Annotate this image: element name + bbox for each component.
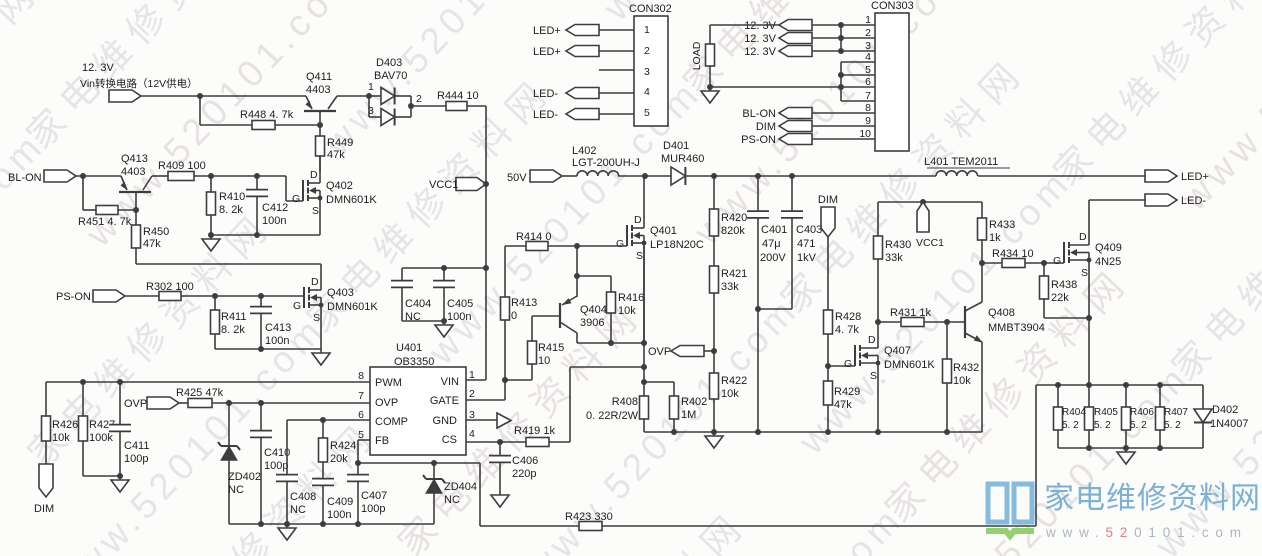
resistor R438: [1040, 263, 1093, 321]
svg-text:C406: C406: [512, 455, 538, 467]
capacitor C413: [250, 296, 291, 349]
connector LED+: [1145, 170, 1209, 183]
resistor R425: [176, 387, 224, 408]
svg-text:S: S: [1081, 267, 1088, 279]
svg-text:Q402: Q402: [326, 180, 353, 192]
wire Q402 source bus: [208, 232, 320, 238]
node LED+ pin1: [533, 25, 634, 38]
inductor L401: [924, 156, 1010, 176]
node 12.3V pin2: [744, 33, 875, 46]
svg-text:12. 3V: 12. 3V: [744, 33, 776, 45]
svg-text:R434 10: R434 10: [992, 248, 1034, 260]
ground under C405: [435, 321, 453, 337]
resistor R426: [42, 416, 79, 444]
svg-text:R408: R408: [612, 396, 638, 408]
svg-text:D: D: [634, 214, 642, 226]
svg-text:22k: 22k: [1051, 292, 1069, 304]
svg-text:S: S: [870, 370, 877, 382]
wire PS-ON to R302: [125, 295, 159, 297]
svg-text:8: 8: [358, 370, 364, 382]
zener ZD404: [423, 463, 477, 524]
svg-text:47k: 47k: [143, 238, 161, 250]
svg-text:R438: R438: [1051, 279, 1077, 291]
svg-text:R409 100: R409 100: [158, 160, 206, 172]
svg-text:100p: 100p: [124, 453, 148, 465]
svg-text:NC: NC: [228, 484, 244, 496]
label R406: [1130, 407, 1154, 431]
svg-text:S: S: [636, 250, 643, 262]
ground power bus: [705, 432, 723, 448]
node BL-ON: [8, 170, 76, 184]
svg-text:MMBT3904: MMBT3904: [988, 322, 1045, 334]
svg-text:Q403: Q403: [327, 287, 354, 299]
svg-text:10k: 10k: [721, 388, 739, 400]
svg-text:C408: C408: [290, 491, 316, 503]
ground under C411: [111, 476, 129, 492]
svg-text:R402: R402: [681, 396, 707, 408]
label R404: [1062, 407, 1086, 431]
svg-text:R406: R406: [1130, 407, 1154, 418]
resistor R450: [132, 210, 170, 250]
wire L402 to D401: [618, 173, 671, 179]
svg-text:MUR460: MUR460: [661, 153, 704, 165]
logo book icon: [986, 484, 1034, 536]
svg-text:家电维修资料网: 家电维修资料网: [1044, 482, 1261, 515]
svg-text:Q404: Q404: [580, 304, 607, 316]
svg-text:C405: C405: [447, 298, 473, 310]
svg-text:100n: 100n: [327, 509, 351, 521]
svg-text:Q407: Q407: [884, 345, 911, 357]
svg-text:R449: R449: [327, 137, 353, 149]
svg-text:R433: R433: [989, 219, 1015, 231]
svg-text:DMN601K: DMN601K: [884, 359, 935, 371]
inductor L402: [572, 145, 640, 176]
mosfet Q402: [292, 156, 377, 235]
resistor R302: [146, 281, 194, 301]
wire VCC decoupling: [402, 265, 489, 271]
svg-text:47k: 47k: [834, 399, 852, 411]
svg-text:L402: L402: [572, 145, 596, 157]
svg-text:R431 1k: R431 1k: [890, 307, 931, 319]
wire Q404 collector bus: [577, 340, 647, 346]
resistor R414: [505, 231, 551, 251]
svg-text:U401: U401: [396, 342, 422, 354]
label R407: [1164, 407, 1188, 431]
resistor R415: [502, 316, 564, 383]
svg-text:LGT-200UH-J: LGT-200UH-J: [572, 157, 640, 169]
wire 12.3V rail: [141, 93, 306, 99]
svg-text:5. 2: 5. 2: [1130, 420, 1147, 431]
resistor R408: [586, 396, 648, 432]
svg-text:R420: R420: [721, 212, 747, 224]
label R405: [1094, 407, 1118, 431]
svg-text:COMP: COMP: [375, 416, 408, 428]
svg-text:10: 10: [538, 355, 550, 367]
svg-text:LED+: LED+: [1181, 171, 1209, 183]
wire Q409 drain to LED-: [1089, 199, 1147, 201]
svg-text:33k: 33k: [721, 281, 739, 293]
wire VIN pin: [466, 379, 486, 381]
diode D401: [661, 140, 704, 185]
wire CON302 pin3: [599, 69, 634, 71]
svg-text:www.520101.com: www.520101.com: [1045, 525, 1248, 540]
node LED- pin5: [533, 109, 634, 122]
wire Q403 source bus: [215, 346, 321, 352]
node 12.3V pin1: [744, 20, 875, 33]
wire gate drive: [548, 243, 627, 249]
wire COMP net: [287, 417, 370, 423]
svg-text:200V: 200V: [760, 252, 786, 264]
node BL-ON pin8: [742, 108, 875, 121]
resistor R431: [878, 307, 965, 327]
svg-text:S: S: [313, 312, 320, 324]
svg-text:www.520101.com: www.520101.com: [0, 124, 53, 426]
svg-text:8. 2k: 8. 2k: [221, 324, 245, 336]
svg-text:PWM: PWM: [375, 377, 402, 389]
svg-text:12. 3V: 12. 3V: [744, 46, 776, 58]
wire bank bottom bus: [1058, 445, 1203, 451]
transistor Q404: [560, 296, 607, 343]
svg-text:100p: 100p: [264, 460, 288, 472]
node GND pin3: [466, 413, 511, 428]
svg-text:10k: 10k: [618, 305, 636, 317]
node PS-ON: [56, 290, 125, 303]
resistor R432: [943, 322, 980, 432]
svg-text:www.520101.com: www.520101.com: [315, 0, 604, 164]
svg-text:LED-: LED-: [533, 109, 558, 121]
node DIM pin9: [756, 121, 875, 134]
resistor R420: [710, 176, 748, 237]
mosfet Q403: [293, 275, 378, 349]
diode D402: [1194, 404, 1249, 448]
svg-text:2: 2: [644, 45, 650, 57]
svg-text:VCC1: VCC1: [916, 237, 944, 249]
wire OVP net: [212, 400, 370, 406]
ground under C406: [491, 491, 509, 507]
svg-text:4403: 4403: [121, 166, 145, 178]
resistor R416: [607, 292, 645, 343]
capacitor C407: [347, 463, 387, 524]
svg-text:D401: D401: [663, 140, 689, 152]
mosfet Q407: [844, 322, 935, 432]
wire VCC1 row: [878, 199, 982, 236]
wire rail to LED+: [978, 175, 1147, 177]
svg-text:GND: GND: [433, 415, 458, 427]
connector DIM bottom-left: [34, 441, 54, 515]
svg-text:C412: C412: [262, 202, 288, 214]
ground under bank: [1117, 448, 1135, 464]
svg-text:DIM: DIM: [34, 503, 54, 515]
svg-text:R404: R404: [1062, 407, 1086, 418]
svg-text:LED-: LED-: [533, 88, 558, 100]
wire R302 to Q403 gate: [181, 293, 304, 299]
wire GATE pin: [466, 320, 505, 400]
svg-text:D403: D403: [376, 57, 402, 69]
svg-text:1: 1: [368, 81, 374, 93]
wire cap ground: [402, 318, 447, 324]
wire bank top bus: [1036, 382, 1203, 409]
svg-text:R405: R405: [1094, 407, 1118, 418]
node OVP left: [124, 397, 179, 410]
svg-text:BAV70: BAV70: [374, 70, 407, 82]
wire PWM net: [46, 379, 370, 416]
svg-text:R450: R450: [143, 226, 169, 238]
svg-text:0. 22R/2W: 0. 22R/2W: [586, 410, 639, 422]
resistor R424: [319, 420, 357, 479]
wire CON303 pins4-7 bracket: [838, 62, 875, 101]
svg-text:1k: 1k: [989, 232, 1001, 244]
svg-text:3: 3: [644, 66, 650, 78]
svg-text:LED+: LED+: [533, 46, 561, 58]
connector VCC1 right: [916, 202, 944, 249]
capacitor C408: [276, 420, 316, 524]
svg-text:NC: NC: [290, 504, 306, 516]
resistor LOAD: [691, 25, 715, 90]
svg-text:PS-ON: PS-ON: [741, 134, 776, 146]
svg-text:DIM: DIM: [756, 121, 776, 133]
wire FB to R423: [480, 463, 579, 526]
ground under LOAD: [701, 87, 719, 103]
svg-text:5. 2: 5. 2: [1094, 420, 1111, 431]
svg-text:LOAD: LOAD: [691, 41, 703, 70]
svg-text:10k: 10k: [52, 432, 70, 444]
svg-text:4N25: 4N25: [1095, 256, 1121, 268]
wire main rail: [685, 173, 936, 179]
svg-text:OVP: OVP: [375, 397, 398, 409]
svg-text:R425 47k: R425 47k: [176, 387, 224, 399]
svg-text:R415: R415: [538, 342, 564, 354]
wire R427 C411 join: [83, 473, 123, 479]
svg-text:PS-ON: PS-ON: [56, 291, 91, 303]
svg-text:12. 3V: 12. 3V: [82, 62, 114, 74]
connector CON302: [629, 3, 672, 126]
svg-text:D: D: [868, 334, 876, 346]
resistor R422: [710, 373, 748, 432]
svg-text:R416: R416: [618, 292, 644, 304]
mosfet Q409: [1053, 200, 1122, 318]
wire 50V to L402: [562, 175, 577, 177]
svg-text:GATE: GATE: [430, 395, 459, 407]
svg-text:CS: CS: [442, 434, 457, 446]
svg-text:R444 10: R444 10: [437, 90, 479, 102]
svg-text:C409: C409: [327, 496, 353, 508]
capacitor C409: [312, 479, 353, 524]
svg-text:D402: D402: [1212, 404, 1238, 416]
svg-text:FB: FB: [375, 435, 389, 447]
svg-text:820k: 820k: [721, 225, 745, 237]
resistor R402: [644, 382, 707, 432]
svg-text:R424: R424: [330, 440, 356, 452]
svg-text:CON302: CON302: [629, 3, 672, 15]
ground small-signal: [278, 524, 296, 540]
svg-text:5. 2: 5. 2: [1062, 420, 1079, 431]
resistor R430: [874, 236, 912, 325]
resistor R413: [501, 246, 538, 322]
svg-text:R414 0: R414 0: [516, 231, 551, 243]
resistor R419: [514, 425, 555, 447]
svg-text:G: G: [1053, 255, 1061, 267]
capacitor C410: [250, 403, 290, 524]
capacitor C406: [489, 442, 538, 491]
svg-text:NC: NC: [444, 494, 460, 506]
resistor R404: [1054, 385, 1063, 448]
ground under Q403: [312, 349, 330, 365]
resistor R411: [211, 296, 247, 349]
svg-text:R428: R428: [835, 311, 861, 323]
resistor R429: [824, 366, 861, 432]
svg-text:LED+: LED+: [533, 25, 561, 37]
capacitor C403: [758, 176, 822, 309]
svg-text:VIN: VIN: [441, 376, 459, 388]
wire R409 node: [194, 173, 303, 201]
svg-text:CON303: CON303: [871, 0, 914, 12]
svg-text:G: G: [616, 238, 624, 250]
svg-text:Vin转换电路（12V供电）: Vin转换电路（12V供电）: [80, 77, 198, 90]
svg-text:20k: 20k: [330, 453, 348, 465]
wire R448 branch: [200, 96, 323, 128]
resistor R409: [158, 160, 206, 181]
resistor R421: [710, 236, 748, 373]
svg-text:Q408: Q408: [988, 307, 1015, 319]
node 12.3V input label: [80, 62, 198, 90]
connector 12.3V input: [109, 90, 141, 102]
capacitor C401: [747, 176, 787, 432]
svg-text:G: G: [293, 300, 301, 312]
svg-text:3906: 3906: [580, 317, 604, 329]
svg-text:G: G: [292, 193, 300, 205]
resistor R448: [240, 109, 294, 130]
svg-text:1N4007: 1N4007: [1210, 418, 1249, 430]
wire R444 to VCC rail: [467, 106, 486, 380]
wire Q409 source to bank: [1088, 318, 1090, 385]
resistor R451: [78, 176, 139, 228]
node LED- pin4: [533, 88, 634, 101]
wire 12.3V bus: [840, 25, 842, 51]
resistor R428: [824, 310, 862, 369]
resistor R434: [982, 248, 1064, 268]
svg-text:1kV: 1kV: [797, 252, 817, 264]
svg-text:LP18N20C: LP18N20C: [650, 239, 704, 251]
svg-text:R302 100: R302 100: [146, 281, 194, 293]
node PS-ON pin10: [741, 134, 875, 147]
wire Q407 gate: [828, 365, 855, 367]
svg-text:Q409: Q409: [1095, 242, 1122, 254]
transistor Q413: [119, 153, 152, 210]
svg-text:OB3350: OB3350: [394, 356, 434, 368]
svg-text:C413: C413: [265, 322, 291, 334]
svg-text:5. 2: 5. 2: [1164, 420, 1181, 431]
wire Q413 to R409: [152, 175, 168, 177]
resistor R427: [79, 382, 116, 476]
connector LED-: [1145, 194, 1206, 207]
svg-text:5: 5: [644, 107, 650, 119]
svg-text:4: 4: [469, 428, 475, 440]
svg-text:R407: R407: [1164, 407, 1188, 418]
diode D403: [366, 57, 422, 126]
svg-text:Q413: Q413: [121, 153, 148, 165]
ground under R410: [202, 235, 220, 251]
svg-text:R451 4. 7k: R451 4. 7k: [78, 216, 132, 228]
svg-text:4403: 4403: [306, 84, 330, 96]
svg-text:R419 1k: R419 1k: [514, 425, 555, 437]
resistor R433: [978, 202, 1016, 266]
svg-text:1: 1: [644, 24, 650, 36]
svg-text:Q401: Q401: [650, 225, 677, 237]
svg-text:R448 4. 7k: R448 4. 7k: [240, 109, 294, 121]
svg-text:4. 7k: 4. 7k: [835, 324, 859, 336]
svg-text:R422: R422: [721, 375, 747, 387]
resistor R405: [1085, 385, 1094, 448]
svg-text:ZD404: ZD404: [444, 481, 477, 493]
wire Q401 source column: [641, 246, 647, 396]
svg-text:C403: C403: [796, 224, 822, 236]
svg-text:471: 471: [797, 238, 815, 250]
wire Q404 emitter riser: [574, 246, 611, 297]
svg-text:7: 7: [358, 390, 364, 402]
svg-text:S: S: [312, 205, 319, 217]
connector 50V: [507, 170, 562, 184]
resistor R410: [207, 176, 246, 235]
svg-text:ZD402: ZD402: [228, 471, 261, 483]
svg-text:0: 0: [511, 310, 517, 322]
resistor R407: [1156, 385, 1165, 448]
svg-text:C411: C411: [124, 440, 149, 452]
svg-text:Q411: Q411: [306, 71, 332, 83]
wire BL-ON rail: [76, 173, 121, 179]
capacitor C411: [109, 382, 149, 476]
svg-text:DMN601K: DMN601K: [326, 194, 377, 206]
op-amp U401 OB3350: [358, 342, 475, 455]
svg-text:D: D: [310, 169, 318, 181]
wire LOAD to pin6: [710, 86, 841, 88]
svg-text:100n: 100n: [265, 335, 289, 347]
svg-text:BL-ON: BL-ON: [8, 172, 42, 184]
wire small-signal ground bus: [229, 521, 434, 527]
wire DIM to R428: [827, 237, 829, 310]
transistor Q408: [965, 263, 1045, 432]
svg-text:R426: R426: [52, 419, 78, 431]
svg-text:10k: 10k: [953, 375, 971, 387]
connector CON303: [859, 0, 913, 151]
svg-text:L401 TEM2011: L401 TEM2011: [924, 156, 998, 168]
svg-text:VCC1: VCC1: [429, 179, 458, 191]
svg-text:LED-: LED-: [1181, 195, 1206, 207]
svg-text:220p: 220p: [512, 468, 536, 480]
node 12.3V pin3: [744, 46, 875, 59]
capacitor C405: [433, 268, 473, 323]
svg-text:3: 3: [368, 105, 374, 117]
svg-text:R432: R432: [953, 362, 979, 374]
resistor R449: [316, 125, 354, 172]
capacitor C412: [246, 176, 288, 235]
logo site name: [1044, 482, 1261, 540]
wire Q411 collector to D403: [337, 95, 369, 97]
svg-text:100p: 100p: [361, 503, 385, 515]
svg-text:2: 2: [416, 93, 422, 105]
wire FB net: [355, 440, 480, 466]
svg-text:1M: 1M: [681, 409, 696, 421]
svg-text:50V: 50V: [507, 172, 527, 184]
svg-text:R430: R430: [885, 239, 911, 251]
svg-text:47k: 47k: [327, 149, 345, 161]
svg-text:R429: R429: [834, 386, 860, 398]
svg-text:47μ: 47μ: [762, 238, 781, 250]
resistor R444: [437, 90, 479, 111]
svg-text:4: 4: [644, 86, 650, 98]
transistor Q411: [304, 71, 337, 125]
connector VCC1: [429, 178, 489, 192]
svg-text:D: D: [311, 276, 319, 288]
